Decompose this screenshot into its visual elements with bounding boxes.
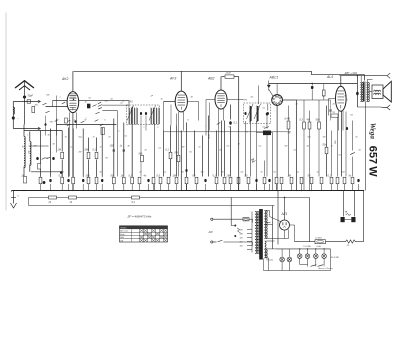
svg-text:0,1: 0,1 [125,136,128,138]
svg-text:ABT + GW: ABT + GW [344,71,358,75]
svg-text:0,4M: 0,4M [285,118,290,121]
svg-text:0,1: 0,1 [164,172,167,174]
svg-text:1M: 1M [182,147,185,149]
svg-text:ZF = 468/473 kHz: ZF = 468/473 kHz [127,215,152,219]
svg-text:1M: 1M [288,175,291,178]
svg-text:a1: a1 [73,120,75,122]
svg-text:Wega: Wega [368,123,376,140]
svg-text:LV 0,3A: LV 0,3A [304,245,312,248]
svg-text:5M: 5M [175,152,178,155]
svg-text:0,1: 0,1 [346,100,349,102]
svg-text:12,8k: 12,8k [226,73,232,75]
svg-text:0,1: 0,1 [89,98,92,100]
svg-text:0,1: 0,1 [263,127,266,129]
svg-text:2M: 2M [226,175,230,178]
svg-text:0,1: 0,1 [297,172,300,174]
svg-text:5M: 5M [285,146,288,148]
svg-text:L: L [28,135,29,137]
svg-text:6V (0s): 6V (0s) [267,260,274,262]
svg-text:AL4: AL4 [326,75,333,79]
svg-text:0,1: 0,1 [263,108,266,110]
svg-text:AK2: AK2 [61,77,69,81]
svg-text:6V 0,3W: 6V 0,3W [331,257,340,259]
svg-text:AZ1: AZ1 [281,212,288,216]
svg-text:100: 100 [110,145,115,148]
svg-text:ZF1: ZF1 [128,101,134,104]
svg-text:U 0207: U 0207 [316,238,323,240]
svg-text:c: c [206,126,207,128]
svg-text:0,1: 0,1 [71,147,74,149]
svg-text:AB2: AB2 [207,77,215,81]
svg-text:50n: 50n [316,119,321,122]
svg-text:Ant. kurz: Ant. kurz [120,230,128,233]
svg-text:2M: 2M [287,133,291,135]
svg-text:AW: AW [208,230,214,234]
svg-text:1M: 1M [201,172,204,174]
svg-text:Wellen: Wellen [121,227,127,229]
svg-text:657 W: 657 W [366,146,378,178]
svg-text:AF3: AF3 [169,77,176,81]
svg-text:1M: 1M [323,137,326,139]
svg-text:2M: 2M [78,152,82,154]
svg-text:ABC1: ABC1 [269,75,279,79]
svg-text:LW: LW [120,240,123,242]
svg-text:0,1: 0,1 [159,148,162,150]
svg-text:1M: 1M [58,149,61,152]
svg-text:MW: MW [120,237,124,239]
svg-text:0,1: 0,1 [339,155,342,157]
svg-text:Masse = Chassis: Masse = Chassis [319,268,334,270]
svg-text:1M: 1M [173,175,176,178]
svg-text:300: 300 [86,175,91,178]
svg-text:0,1: 0,1 [294,150,297,152]
svg-text:50pF: 50pF [28,95,34,98]
svg-text:50n: 50n [323,144,328,147]
svg-text:0,2A: 0,2A [317,245,322,248]
